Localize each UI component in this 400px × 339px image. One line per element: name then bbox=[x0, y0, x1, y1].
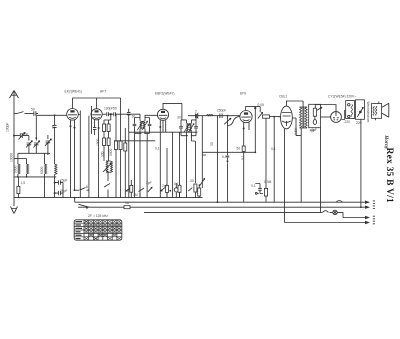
wire bbox=[18, 174, 45, 177]
wire bbox=[124, 128, 126, 143]
svg-text:50: 50 bbox=[113, 107, 117, 111]
capacitor C14 box bbox=[313, 108, 316, 116]
tube T2 AF7 bbox=[91, 109, 102, 120]
svg-text:6000: 6000 bbox=[40, 166, 44, 174]
PSU resistor block bbox=[346, 101, 355, 119]
PSU transformer block bbox=[356, 100, 365, 120]
switch S1 bbox=[14, 112, 34, 114]
resistor R13 bbox=[130, 185, 133, 192]
wire T1 pin2 bbox=[74, 120, 76, 190]
wire bbox=[18, 153, 48, 164]
wire T3 pins bbox=[160, 120, 167, 197]
wire bbox=[88, 116, 90, 198]
wire T1 anode top bbox=[73, 98, 121, 109]
node C9a bbox=[110, 113, 112, 115]
switch S6 bbox=[323, 211, 333, 213]
wire y158 bbox=[14, 158, 27, 160]
node K2 bbox=[169, 190, 171, 192]
wire T5 grid bbox=[278, 116, 281, 118]
svg-text:0,1: 0,1 bbox=[174, 182, 179, 186]
wire bbox=[35, 116, 37, 138]
wire bbox=[128, 132, 130, 198]
svg-text:4μF: 4μF bbox=[311, 128, 317, 132]
svg-text:220: 220 bbox=[356, 121, 362, 125]
node D2 bbox=[217, 201, 219, 203]
svg-text:5000: 5000 bbox=[109, 148, 113, 156]
node bus1a bbox=[74, 197, 76, 199]
wire T6 left bbox=[321, 116, 331, 118]
volume pot P1 bbox=[200, 155, 205, 188]
wire bbox=[115, 114, 117, 141]
wire bbox=[216, 116, 218, 203]
node E1 bbox=[254, 107, 256, 109]
table x marks bbox=[85, 220, 121, 239]
wire IFT2 bottoms bbox=[187, 136, 196, 198]
wire bus y153 bbox=[18, 152, 50, 154]
diode D1 bbox=[196, 114, 198, 119]
wire T2 top bbox=[96, 98, 98, 109]
wire bbox=[62, 183, 64, 198]
oscillator coil L3 bbox=[53, 115, 57, 164]
svg-text:EBF2(WE47): EBF2(WE47) bbox=[155, 92, 174, 96]
coil L2 bbox=[27, 164, 29, 174]
wire TR1 top bbox=[300, 101, 308, 202]
node A2 bbox=[17, 176, 19, 178]
output transformer TR1 bbox=[300, 107, 308, 128]
capacitor C5 bbox=[55, 180, 63, 184]
arrow bus3 bbox=[365, 206, 370, 209]
svg-text:0,1: 0,1 bbox=[241, 155, 245, 160]
capacitor C11 bbox=[127, 109, 131, 132]
wire T5 top bbox=[286, 101, 303, 106]
capacitor C13 bbox=[255, 184, 263, 194]
terminal ticks bbox=[373, 201, 375, 224]
node B2 bbox=[54, 192, 56, 194]
table row headers bbox=[76, 221, 83, 239]
wire anode T2 right bbox=[102, 113, 106, 115]
resistor R12 bbox=[124, 206, 130, 209]
svg-text:250pF: 250pF bbox=[217, 109, 226, 113]
oscillator block coils bbox=[106, 161, 113, 172]
wire bbox=[292, 118, 301, 136]
wire lamp line bbox=[144, 211, 323, 213]
antenna bbox=[10, 91, 19, 112]
wire bbox=[146, 141, 148, 198]
trimmer CT2b bbox=[33, 138, 39, 153]
wire detector line bbox=[188, 116, 240, 120]
node T1k bbox=[74, 189, 76, 191]
svg-text:Wechselstrom: Wechselstrom bbox=[366, 102, 370, 123]
wire T6 top bbox=[315, 105, 336, 112]
switch S4 bbox=[126, 188, 132, 192]
node E2 bbox=[254, 151, 256, 153]
tube T1 EK2 bbox=[67, 109, 79, 121]
resistor R1 bbox=[17, 177, 19, 186]
wire bbox=[179, 132, 181, 197]
resistor R2 bbox=[103, 124, 106, 132]
wire bbox=[78, 111, 80, 198]
capacitor C10 bbox=[114, 112, 140, 116]
resistor R8 bbox=[263, 115, 270, 118]
resistor R3 bbox=[107, 124, 110, 132]
bottom bus 2 bbox=[75, 198, 369, 203]
arrow line5 bbox=[365, 221, 370, 224]
trimmer CT1 bbox=[19, 133, 26, 140]
trimmer CT2a bbox=[26, 136, 32, 154]
tube T4 EF9 bbox=[240, 111, 252, 123]
resistor R2b bbox=[103, 138, 106, 146]
svg-text:50pF: 50pF bbox=[21, 133, 29, 137]
svg-text:0,1: 0,1 bbox=[155, 147, 160, 151]
capacitor C8 bbox=[93, 128, 96, 135]
resistor R6 bbox=[124, 143, 127, 151]
svg-text:0,1: 0,1 bbox=[271, 147, 276, 151]
svg-text:30: 30 bbox=[52, 125, 56, 129]
bottom bus 1 bbox=[14, 197, 203, 199]
svg-text:0,5M: 0,5M bbox=[222, 155, 230, 159]
coil L1 bbox=[18, 164, 20, 174]
ground bbox=[11, 198, 18, 214]
resistor R14 bbox=[242, 146, 245, 152]
svg-text:0,1: 0,1 bbox=[251, 184, 256, 188]
svg-text:1M: 1M bbox=[133, 193, 138, 197]
wire bbox=[273, 117, 275, 203]
trimmer CT3 bbox=[45, 135, 51, 153]
switch S5 bbox=[139, 188, 145, 191]
capacitor C1 bbox=[34, 111, 38, 116]
wire T6 right bbox=[341, 110, 344, 120]
wire bbox=[320, 128, 322, 213]
wire PSU down bbox=[360, 119, 362, 207]
svg-text:CBL1: CBL1 bbox=[279, 95, 287, 99]
node B3 bbox=[54, 114, 56, 116]
tube T6 CY2 bbox=[331, 112, 342, 123]
wire bbox=[254, 107, 256, 153]
wire bbox=[44, 177, 46, 198]
switch S3 bbox=[104, 184, 110, 198]
svg-text:0,3M: 0,3M bbox=[264, 180, 272, 184]
IF transformer IFT1 bbox=[133, 118, 152, 134]
resistor R7 bbox=[259, 107, 261, 113]
svg-text:30: 30 bbox=[190, 179, 194, 183]
svg-text:0,05: 0,05 bbox=[258, 103, 265, 107]
svg-text:50: 50 bbox=[31, 108, 35, 112]
svg-text:100pF: 100pF bbox=[6, 123, 10, 132]
svg-text:CY2(WE54) 220V~: CY2(WE54) 220V~ bbox=[328, 95, 356, 99]
svg-text:2pF: 2pF bbox=[146, 181, 152, 185]
svg-text:2pF: 2pF bbox=[162, 184, 168, 188]
node A1b bbox=[35, 137, 37, 139]
lamp scale bbox=[174, 188, 178, 192]
wire T4 top bbox=[246, 107, 261, 111]
svg-text:50: 50 bbox=[237, 147, 241, 151]
svg-text:1000: 1000 bbox=[96, 138, 100, 146]
svg-text:30: 30 bbox=[132, 115, 136, 119]
svg-text:ZF = 128 kHz: ZF = 128 kHz bbox=[88, 214, 108, 218]
capacitor C12 bbox=[220, 114, 222, 119]
resistor R11 bbox=[194, 184, 197, 192]
wire T3 top anode bbox=[163, 103, 182, 120]
tube T5 CBL1 bbox=[281, 106, 293, 129]
speaker unit frame bbox=[309, 104, 321, 127]
svg-text:100pF: 100pF bbox=[104, 107, 113, 111]
coil L4 bbox=[207, 114, 213, 115]
svg-text:30: 30 bbox=[177, 116, 181, 120]
wire bbox=[314, 116, 316, 119]
svg-text:EF9: EF9 bbox=[240, 92, 246, 96]
wire T1 pin1 bbox=[70, 120, 72, 198]
wire T5 cathode down bbox=[284, 129, 286, 223]
arrow line4 bbox=[365, 216, 370, 219]
wire y132 bbox=[129, 131, 198, 133]
wire grid T1 bbox=[36, 114, 66, 116]
node A1 bbox=[13, 135, 15, 137]
wire bus y177 bbox=[14, 176, 56, 178]
svg-text:220: 220 bbox=[345, 120, 351, 124]
IF transformer IFT2 bbox=[179, 120, 198, 136]
wire R2R3 feed bbox=[104, 114, 111, 124]
switch S7 bbox=[336, 201, 342, 203]
switch S2 bbox=[80, 188, 89, 191]
bottom bus 3 bbox=[78, 206, 369, 208]
wire T4 pins bbox=[244, 122, 249, 202]
svg-text:2: 2 bbox=[195, 110, 197, 114]
svg-text:8: 8 bbox=[86, 185, 88, 189]
wire heater line bbox=[285, 222, 369, 224]
wire y141 bbox=[114, 140, 155, 142]
svg-text:30: 30 bbox=[210, 142, 214, 146]
wire bbox=[172, 132, 174, 197]
wire osc block bbox=[106, 161, 111, 181]
wire y152 bbox=[202, 151, 255, 153]
wire grid T4 cap bbox=[228, 116, 240, 126]
resistor G6 bbox=[178, 185, 181, 192]
wire IFT1 sec to T3 grid bbox=[145, 115, 157, 117]
wire bbox=[202, 116, 206, 155]
wire bbox=[91, 106, 93, 134]
capacitor C15 bbox=[313, 120, 316, 125]
svg-text:1Ω: 1Ω bbox=[125, 201, 130, 205]
contact G4 lever bbox=[160, 188, 165, 191]
heater down arrow bbox=[226, 156, 229, 161]
resistor R10 bbox=[166, 185, 169, 192]
svg-text:0,5M: 0,5M bbox=[294, 127, 298, 135]
svg-text:1,5: 1,5 bbox=[21, 181, 26, 185]
node F1 bbox=[360, 206, 362, 208]
wire IFT1 bottoms bbox=[135, 133, 148, 197]
node B1 bbox=[54, 182, 56, 184]
wire bbox=[265, 118, 267, 188]
volume pot P2 bbox=[227, 116, 229, 156]
contact K1 bbox=[148, 187, 152, 192]
node A3 bbox=[26, 176, 28, 178]
svg-text:5000: 5000 bbox=[13, 165, 17, 173]
wire bbox=[75, 189, 80, 191]
trimmer CT2 bbox=[103, 164, 111, 173]
wire lamp right bbox=[337, 212, 368, 217]
resistor R3b bbox=[107, 138, 110, 146]
svg-text:300: 300 bbox=[101, 151, 105, 157]
contact K3 bbox=[188, 188, 192, 191]
resistor R5 bbox=[119, 141, 122, 150]
switch lever bus3 bbox=[79, 204, 90, 207]
capacitor C6 bbox=[55, 191, 63, 195]
svg-text:25pF: 25pF bbox=[60, 179, 68, 183]
wire T2 pins bbox=[95, 120, 99, 198]
resistor R4 bbox=[115, 141, 118, 150]
dial lamp LP1 bbox=[333, 210, 337, 214]
svg-text:Rex 35 B V/1: Rex 35 B V/1 bbox=[384, 148, 394, 204]
wire bbox=[120, 98, 122, 141]
node bbox=[315, 109, 317, 111]
svg-text:EK2(WE41): EK2(WE41) bbox=[65, 90, 82, 94]
coil L2b bbox=[45, 164, 47, 174]
svg-text:25pF: 25pF bbox=[60, 189, 68, 193]
svg-text:AF7: AF7 bbox=[100, 90, 106, 94]
wire antenna lead bbox=[13, 111, 15, 198]
measurement table bbox=[74, 220, 122, 240]
arrow bus2 bbox=[365, 201, 370, 204]
capacitor C2 bbox=[14, 133, 29, 138]
wire into IFT1 bbox=[139, 114, 141, 117]
svg-text:10000: 10000 bbox=[9, 153, 13, 162]
resistor R9 bbox=[264, 188, 267, 196]
speaker bbox=[372, 102, 389, 121]
capacitor C9 bbox=[107, 112, 114, 116]
switch arrow bbox=[317, 107, 322, 110]
tube T3 EBF2 bbox=[157, 109, 168, 120]
